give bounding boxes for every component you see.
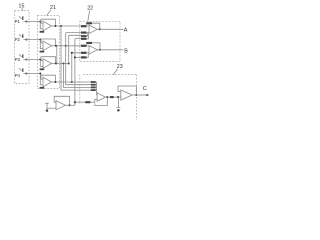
ground bar U3 (40, 68, 45, 70)
op-amp B (89, 46, 97, 55)
buffer U4 (43, 77, 52, 87)
resistor RC3 (91, 87, 96, 89)
svg-text:C: C (143, 86, 147, 92)
junction ref tap B (74, 56, 76, 58)
feedback resistor RB4 (86, 42, 92, 44)
leader 21 (47, 10, 51, 16)
feedback resistor RA5 (86, 22, 92, 24)
junction amp B out (99, 49, 101, 51)
buffer block 21 dashed box (38, 16, 60, 89)
ground (45, 103, 48, 111)
svg-text:P4: P4 (15, 73, 21, 78)
feedback U1 (41, 19, 55, 26)
wire bus v4 b2 to amp A and sum (66, 33, 91, 85)
wire bus v2 b1 to sum (61, 26, 91, 90)
junction U5 out (106, 96, 108, 98)
wire U4 output to summing amp (52, 81, 91, 83)
wire feedback U6 (118, 86, 136, 95)
wire feedback amp B (86, 43, 100, 50)
wire RA3 to amp A (87, 33, 88, 36)
resistor RA2 (81, 32, 87, 34)
wire node to U6 (114, 96, 121, 98)
ground bar U4 (40, 87, 45, 89)
resistor RB3 (81, 56, 87, 58)
wire RB3 to amp B (87, 54, 89, 58)
wire U6 output to C (132, 94, 147, 96)
wire ref tap to amp B (75, 56, 81, 58)
junction amp A out (99, 28, 101, 30)
wire P3 to buffer (23, 60, 43, 67)
junction U4 fb tap (54, 81, 56, 83)
wire feedback U7 (54, 96, 69, 105)
leader 23 (114, 69, 118, 75)
wire bus v3 b3 to sum (63, 64, 90, 88)
resistor RC1 (91, 81, 96, 83)
sum block 23 dashed box (80, 75, 137, 120)
resistor RA4 (81, 38, 87, 40)
wire summing junction (96, 82, 97, 95)
wire U3 output (52, 63, 70, 65)
wire U7 plus input (47, 107, 56, 109)
wire RA1 to amp A (87, 25, 90, 27)
wire ref bus v7 (75, 39, 81, 106)
wire RB2 to amp B (87, 52, 90, 54)
wire U7 output (66, 104, 75, 106)
svg-text:A: A (124, 27, 128, 33)
junction node (117, 96, 119, 98)
svg-text:B: B (124, 48, 128, 54)
amp block 22 dashed box (80, 21, 120, 61)
wire RB1 to amp B (87, 45, 90, 47)
wire bus v1 (56, 46, 58, 64)
svg-text:15: 15 (19, 3, 25, 9)
junction U3 out b (62, 62, 64, 64)
resistor RA1 (81, 25, 87, 27)
junction P2 corner (39, 39, 41, 41)
wire U2 output to amp B (52, 45, 82, 47)
feedback U4 (41, 75, 55, 82)
svg-text:P2: P2 (15, 37, 21, 42)
junction P1 corner (39, 21, 41, 23)
resistor RC4 (91, 89, 96, 91)
junction U1 out (60, 25, 62, 27)
wire P1 to buffer (23, 22, 43, 29)
junction P4 corner (39, 73, 41, 75)
resistor RB2 (81, 52, 87, 54)
wire amp B output (97, 49, 123, 51)
op-amp U7 reference (56, 101, 66, 110)
resistor R series (110, 96, 114, 98)
sensor P3 (15, 54, 28, 62)
ground blob (46, 109, 49, 112)
svg-text:22: 22 (87, 6, 93, 12)
leader 15 (22, 8, 23, 11)
wire feedback U5 (95, 97, 108, 105)
buffer U2 (43, 41, 52, 51)
wire RA2 to amp A (87, 32, 90, 34)
arrow C (146, 94, 149, 96)
junction ref tap sum (74, 101, 76, 103)
capacitor ground blob (117, 109, 120, 112)
resistor RA3 (81, 35, 87, 37)
sensor P1 (15, 16, 28, 24)
resistor RC2 (91, 84, 96, 86)
ground bar U2 (40, 51, 45, 53)
wire feedback amp A (86, 23, 100, 29)
wire P4 to buffer (23, 74, 43, 85)
wire amp A output (97, 28, 123, 30)
junction U4 out (71, 81, 73, 83)
resistor RC5 ref (85, 101, 90, 103)
op-amp A (89, 25, 97, 34)
wire RC5 to sum amp (90, 99, 97, 102)
junction U3 fb tap (55, 62, 57, 64)
junction U7 out (68, 104, 70, 106)
wire bus v5 b3 to amp A (69, 35, 81, 63)
wire node to capacitor (117, 97, 119, 107)
sensor block 15 dashed box (15, 11, 30, 84)
wire U1 output to amp A (52, 25, 82, 27)
junction U2 fb tap (55, 45, 57, 47)
junction P3 corner (39, 59, 41, 61)
sensor P2 (15, 34, 28, 42)
ground bar U1 (40, 31, 45, 33)
wire U5 to R series (105, 96, 110, 98)
feedback U3 (41, 57, 55, 64)
op-amp U6 (121, 90, 132, 100)
wire P2 to buffer (23, 40, 43, 49)
wire ref tap to sum amp (75, 101, 85, 103)
op-amp U5 summing (97, 93, 105, 102)
buffer U3 (43, 59, 52, 69)
svg-text:P3: P3 (15, 57, 21, 62)
sensor P4 (15, 68, 28, 78)
svg-text:P1: P1 (15, 19, 21, 24)
feedback U2 (41, 39, 55, 46)
buffer U1 (43, 21, 52, 31)
leader 22 (88, 10, 90, 21)
resistor RB1 (81, 45, 87, 47)
junction U2 out b (65, 45, 67, 47)
junction U3 out c (68, 62, 70, 64)
wire RA4 to amp A (87, 34, 89, 39)
junction U1 fb tap (54, 25, 56, 27)
junction U6 out (135, 94, 137, 96)
capacitor ground (117, 107, 121, 109)
junction v6 tap B (71, 52, 73, 54)
wire bus v6 b4 to amp B (72, 53, 81, 82)
